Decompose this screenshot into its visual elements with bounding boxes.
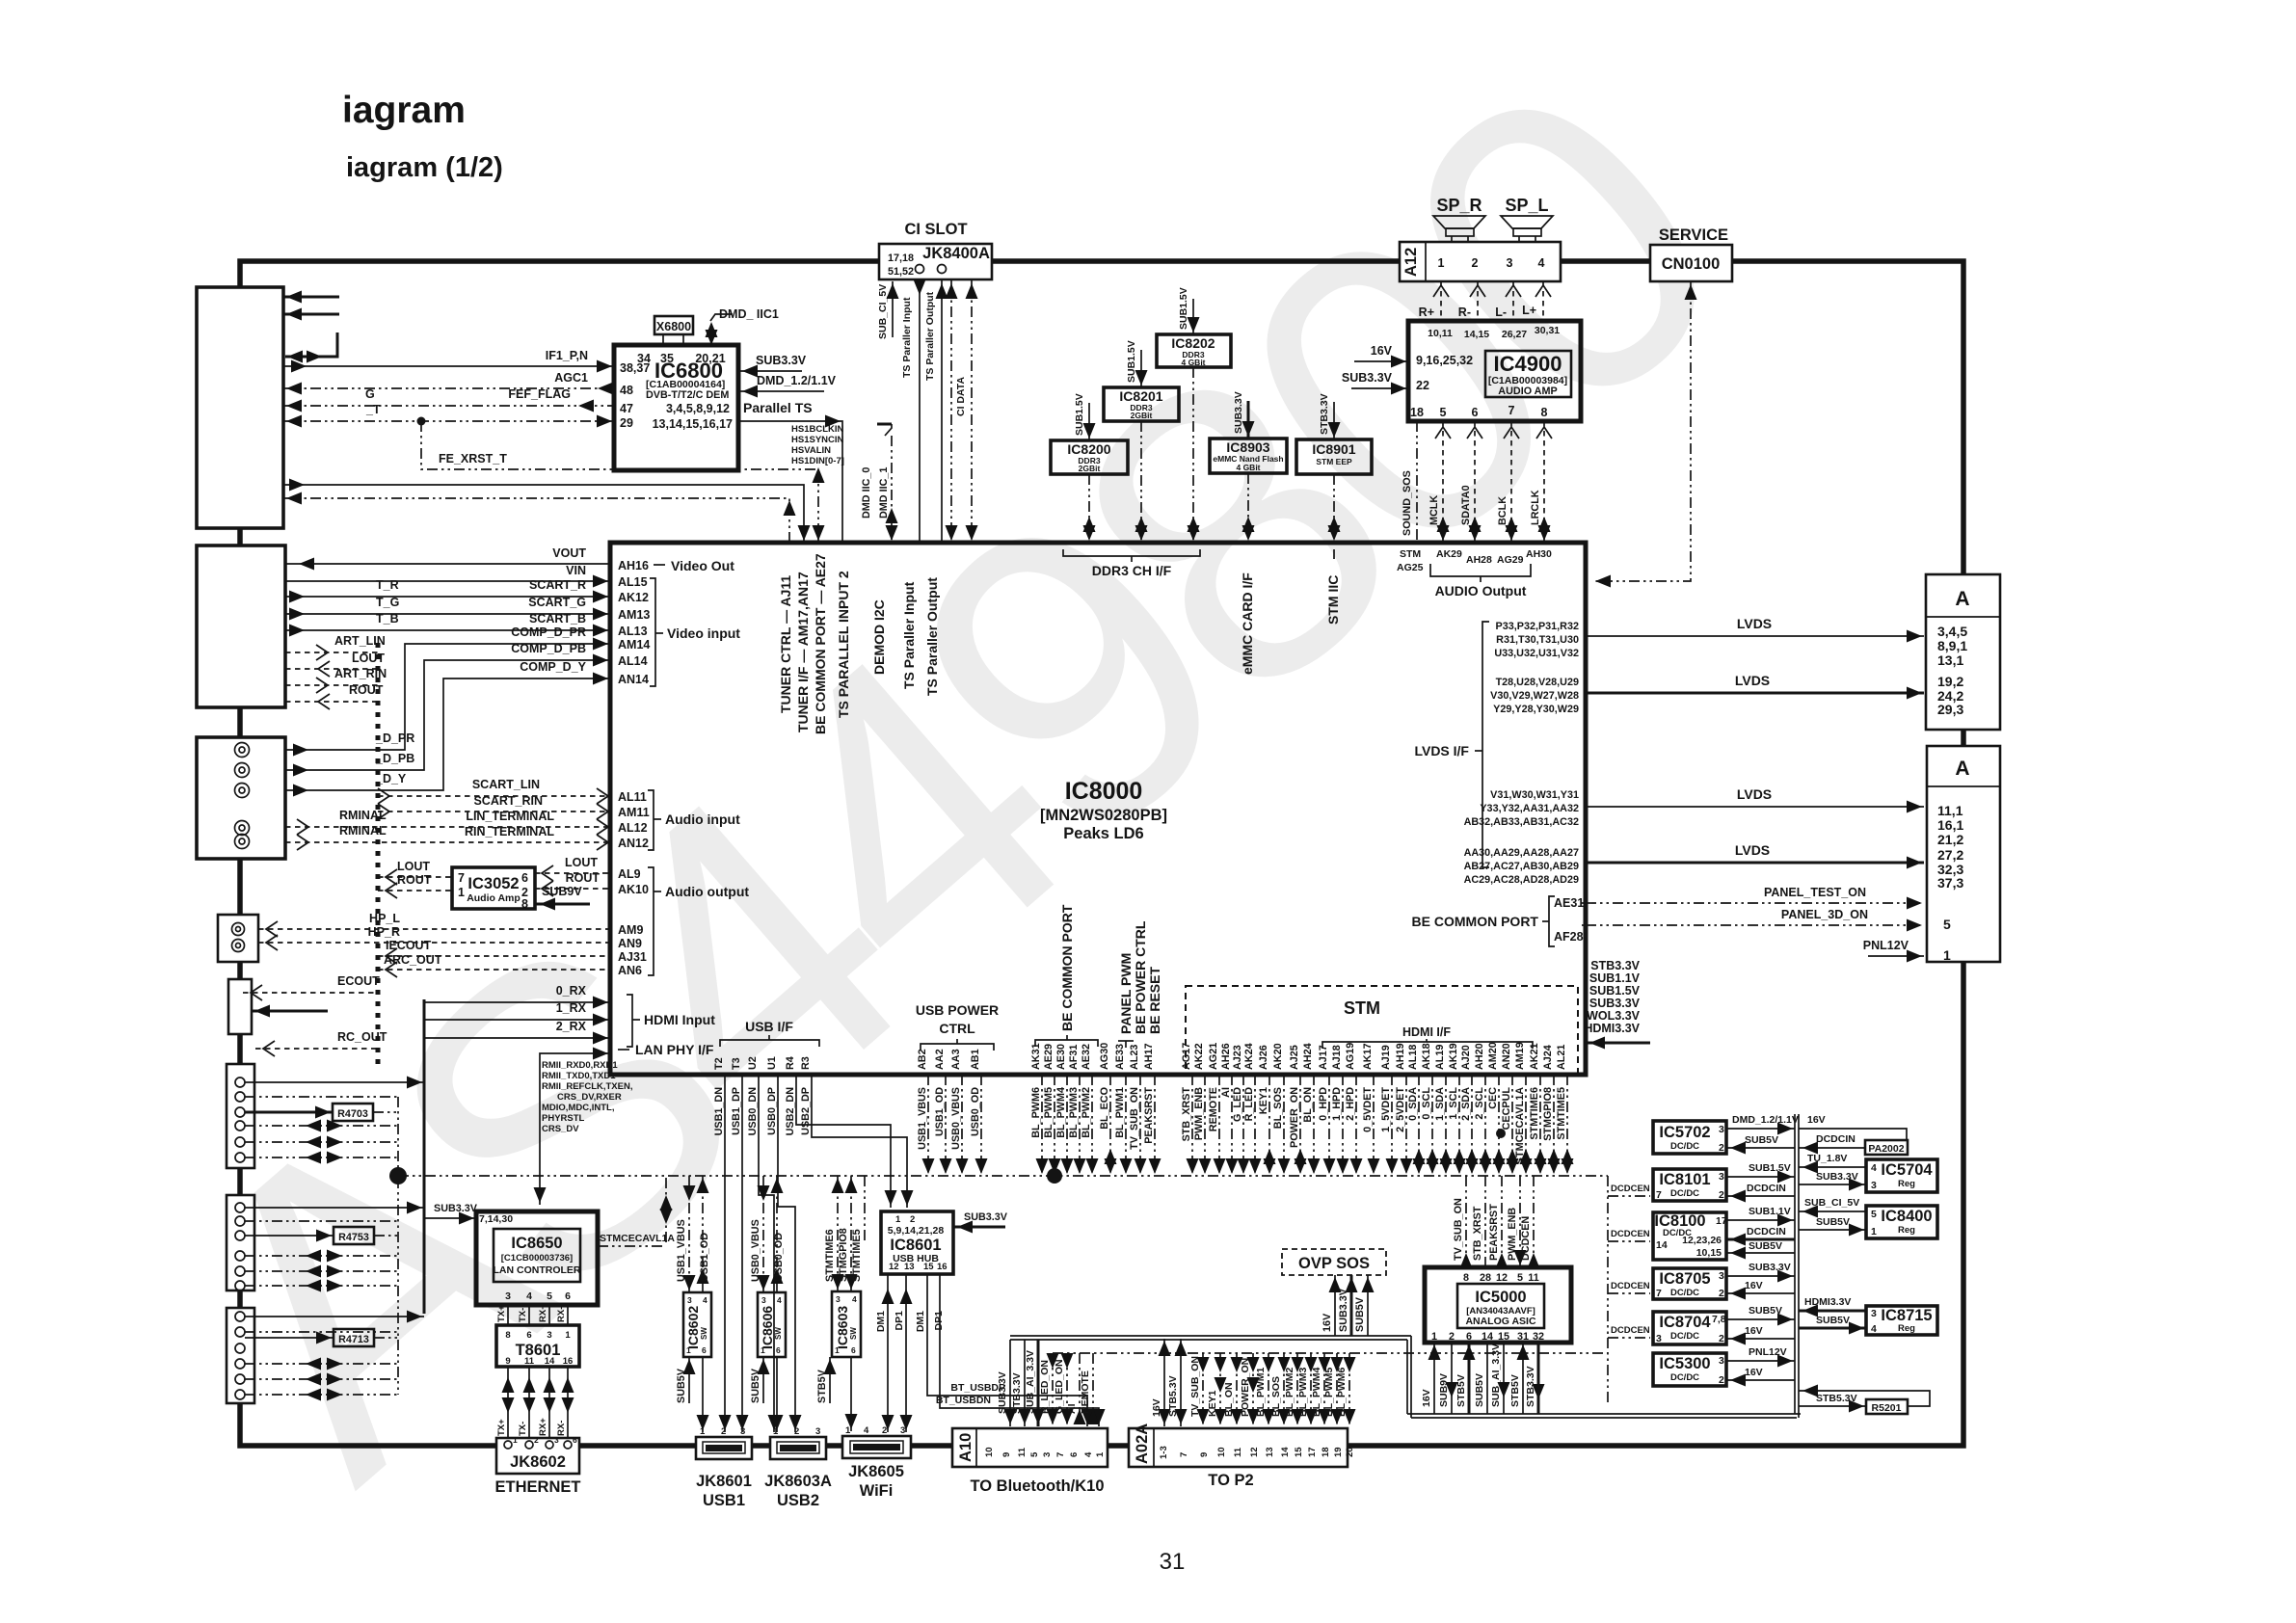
secondary dashdot bus	[1053, 1352, 1608, 1354]
svg-text:REMOTE: REMOTE	[1080, 1370, 1091, 1414]
svg-text:SP_L: SP_L	[1505, 196, 1548, 215]
svg-text:TS Paraller Output: TS Paraller Output	[924, 577, 940, 696]
svg-text:48: 48	[620, 384, 633, 397]
DCDCEN row 1	[1608, 1195, 1650, 1197]
svg-text:WiFi: WiFi	[860, 1482, 894, 1500]
svg-text:AB2: AB2	[917, 1049, 928, 1070]
svg-text:STB3.3V: STB3.3V	[1319, 393, 1330, 435]
regulator IC5704	[1866, 1159, 1937, 1192]
svg-text:AK18: AK18	[1421, 1043, 1432, 1070]
svg-text:11,1: 11,1	[1937, 803, 1963, 818]
component AV jack box	[197, 737, 285, 859]
wire USB1_OD from IC8602	[702, 1176, 704, 1292]
wire USB2_DP to IC8601	[812, 1075, 907, 1208]
wire VIN	[285, 580, 610, 582]
svg-text:TO Bluetooth/K10: TO Bluetooth/K10	[970, 1477, 1104, 1495]
wire RIN_TERMINAL	[285, 841, 610, 843]
svg-text:12: 12	[1496, 1272, 1508, 1284]
regulator IC8715	[1866, 1306, 1937, 1335]
svg-text:AUDIO AMP: AUDIO AMP	[1498, 386, 1557, 397]
svg-text:1: 1	[513, 1435, 518, 1445]
wire IECOUT	[378, 955, 610, 957]
svg-text:STMGPIO8: STMGPIO8	[1542, 1087, 1554, 1141]
svg-text:ETHERNET: ETHERNET	[495, 1478, 581, 1496]
svg-text:15: 15	[923, 1262, 934, 1272]
svg-text:HDMI I/F: HDMI I/F	[1402, 1025, 1451, 1039]
svg-text:1: 1	[458, 886, 465, 899]
svg-text:AH24: AH24	[1302, 1043, 1314, 1070]
svg-text:AG30: AG30	[1099, 1043, 1110, 1070]
svg-text:JK8400A: JK8400A	[922, 245, 990, 262]
wire 2_RX	[424, 1037, 610, 1039]
wire DCDCIN in	[1726, 1195, 1795, 1197]
svg-text:2: 2	[1719, 1333, 1724, 1344]
svg-text:BL_PWM4: BL_PWM4	[1055, 1087, 1067, 1138]
svg-text:AL9: AL9	[618, 867, 641, 881]
svg-text:3: 3	[1871, 1180, 1877, 1191]
svg-text:AH19: AH19	[1395, 1043, 1406, 1070]
USB POWER CTRL bracket + label	[921, 1044, 994, 1051]
svg-text:AI: AI	[1220, 1087, 1232, 1098]
svg-text:BE RESET: BE RESET	[1147, 967, 1162, 1034]
svg-text:16: 16	[563, 1356, 574, 1367]
svg-text:AK19: AK19	[1448, 1043, 1459, 1070]
svg-text:HDMI3.3V: HDMI3.3V	[1804, 1296, 1851, 1308]
svg-text:AC29,AC28,AD28,AD29: AC29,AC28,AD28,AD29	[1464, 874, 1579, 886]
audio input bracket	[648, 790, 654, 850]
svg-text:IC8903: IC8903	[1226, 439, 1269, 455]
svg-text:13,14,15,16,17: 13,14,15,16,17	[653, 417, 733, 431]
wire 16V right	[1799, 1129, 1907, 1140]
wire TUNER CTRL	[283, 498, 789, 543]
wire HP_L	[258, 928, 610, 930]
svg-text:ANALOG ASIC: ANALOG ASIC	[1465, 1316, 1536, 1327]
svg-text:TO P2: TO P2	[1208, 1472, 1253, 1489]
wire LOUT right of IC3052	[535, 872, 610, 874]
wire HDMI1 from box E	[245, 1207, 424, 1209]
svg-text:STB3.3V: STB3.3V	[1525, 1366, 1536, 1407]
svg-text:4: 4	[526, 1290, 532, 1302]
svg-text:8: 8	[521, 897, 528, 911]
wire COMP_D_PB	[285, 660, 610, 770]
wire STB5V into IC8603	[829, 1357, 831, 1403]
audio amp IC3052	[452, 867, 535, 909]
svg-text:4: 4	[852, 1294, 857, 1304]
svg-text:SUB1.5V: SUB1.5V	[1126, 340, 1137, 383]
wire COMP_D_PR	[285, 644, 610, 750]
svg-text:SUB3.3V: SUB3.3V	[434, 1203, 478, 1214]
svg-text:16V: 16V	[1807, 1114, 1826, 1126]
svg-text:VIN: VIN	[566, 564, 586, 577]
usb switch IC8602	[683, 1292, 711, 1357]
wire STMCECAVL1A	[598, 1245, 666, 1247]
svg-text:AH26: AH26	[1220, 1043, 1232, 1070]
svg-text:11: 11	[1528, 1272, 1538, 1284]
svg-text:AJ18: AJ18	[1331, 1045, 1343, 1070]
svg-text:3: 3	[1042, 1452, 1053, 1457]
svg-text:DC/DC: DC/DC	[1670, 1188, 1699, 1199]
svg-text:BL_PWM2: BL_PWM2	[1081, 1087, 1092, 1138]
svg-text:AJ19: AJ19	[1380, 1045, 1392, 1070]
svg-text:RIN_TERMINAL: RIN_TERMINAL	[465, 825, 554, 838]
wire USB1_VBUS to IC8602	[688, 1176, 690, 1292]
wire IC8602 to JK8601	[702, 1357, 704, 1432]
connector A (LVDS lower)	[1927, 746, 2000, 962]
svg-text:AK29: AK29	[1436, 548, 1462, 560]
crystal X6800	[654, 316, 693, 334]
svg-text:T2: T2	[713, 1057, 725, 1070]
wire 16V into IC4900	[1354, 360, 1408, 362]
svg-text:SCART_RIN: SCART_RIN	[473, 794, 543, 808]
svg-text:STB_XRST: STB_XRST	[1181, 1087, 1192, 1142]
svg-text:TUNER CTRL — AJ11: TUNER CTRL — AJ11	[778, 575, 793, 713]
svg-text:IC5000: IC5000	[1475, 1289, 1526, 1306]
usb switch IC8606	[758, 1292, 786, 1357]
svg-text:STB3.3V: STB3.3V	[1590, 959, 1640, 972]
wire IC8606 to JK8603A	[776, 1357, 778, 1432]
svg-text:38,37: 38,37	[620, 361, 650, 375]
svg-text:R4753: R4753	[338, 1232, 369, 1243]
svg-text:SUB_AI_3.3V: SUB_AI_3.3V	[1025, 1350, 1036, 1414]
svg-text:15: 15	[1294, 1447, 1304, 1457]
wires T8601 to JK8602	[507, 1367, 509, 1440]
svg-text:10,15: 10,15	[1696, 1247, 1722, 1259]
svg-text:8: 8	[1541, 406, 1548, 419]
svg-text:Y29,Y28,Y30,W29: Y29,Y28,Y30,W29	[1493, 704, 1579, 715]
svg-text:USB1_OD: USB1_OD	[699, 1233, 710, 1282]
svg-text:BL_PWM1: BL_PWM1	[1255, 1368, 1267, 1417]
svg-text:R31,T30,T31,U30: R31,T30,T31,U30	[1496, 634, 1579, 646]
svg-text:4 GBit: 4 GBit	[1181, 358, 1205, 367]
svg-text:STM IIC: STM IIC	[1325, 575, 1341, 625]
svg-text:51,52: 51,52	[888, 266, 914, 278]
svg-text:TUNER I/F — AM17,AN17: TUNER I/F — AM17,AN17	[795, 572, 811, 732]
svg-text:BL_PWM2: BL_PWM2	[1284, 1368, 1295, 1417]
svg-text:AE30: AE30	[1055, 1044, 1067, 1070]
svg-text:1: 1	[895, 1214, 901, 1225]
wires A02A control nets	[1202, 1353, 1204, 1426]
wire STMTIME5	[864, 1176, 866, 1243]
svg-text:5,9,14,21,28: 5,9,14,21,28	[888, 1225, 945, 1237]
svg-text:AL18: AL18	[1407, 1045, 1419, 1070]
svg-text:PEAKSRST: PEAKSRST	[1488, 1204, 1500, 1261]
svg-text:IC8200: IC8200	[1067, 441, 1110, 457]
svg-text:CRS_DV,RXER: CRS_DV,RXER	[557, 1092, 622, 1103]
svg-text:LVDS: LVDS	[1735, 673, 1770, 688]
wire CI DATA 2	[971, 279, 973, 543]
wire HDMI2 from box F	[245, 1316, 424, 1317]
svg-text:AF31: AF31	[1068, 1045, 1080, 1070]
svg-text:SUB3.3V: SUB3.3V	[1749, 1262, 1791, 1273]
svg-text:HS1SYNCIN: HS1SYNCIN	[791, 435, 844, 445]
svg-text:3: 3	[740, 1426, 745, 1437]
svg-text:AL14: AL14	[618, 654, 648, 668]
wire IF1_P,N	[283, 365, 614, 367]
svg-text:SUB9V: SUB9V	[542, 885, 582, 898]
wire ctrl E4	[245, 1255, 398, 1257]
svg-text:1: 1	[773, 1426, 779, 1437]
svg-text:HS1DIN[0-7]: HS1DIN[0-7]	[791, 456, 844, 466]
svg-text:PNL12V: PNL12V	[1749, 1346, 1787, 1358]
svg-text:IC5704: IC5704	[1881, 1161, 1933, 1179]
svg-text:5: 5	[1871, 1209, 1877, 1220]
svg-text:FEF_FLAG: FEF_FLAG	[508, 387, 571, 401]
wire Parallel TS	[738, 421, 842, 543]
svg-text:KEY1: KEY1	[1207, 1390, 1218, 1417]
wire FEF_FLAG (G)	[283, 405, 614, 407]
svg-text:AH28: AH28	[1466, 554, 1492, 566]
svg-text:7: 7	[1656, 1288, 1662, 1299]
svg-text:12: 12	[1249, 1447, 1260, 1457]
svg-text:DDR3 CH I/F: DDR3 CH I/F	[1092, 563, 1172, 578]
svg-text:11: 11	[1233, 1447, 1243, 1457]
svg-text:3: 3	[1656, 1333, 1662, 1344]
audio output bracket	[648, 867, 654, 975]
svg-text:PANEL PWM: PANEL PWM	[1118, 953, 1134, 1034]
IC5000 bottom supplies	[1433, 1343, 1435, 1414]
svg-text:RMII_TXD0,TXD1: RMII_TXD0,TXD1	[542, 1071, 616, 1081]
svg-text:LIN_TERMINAL: LIN_TERMINAL	[466, 810, 554, 823]
svg-text:IC8715: IC8715	[1881, 1307, 1932, 1324]
svg-text:SERVICE: SERVICE	[1659, 226, 1728, 244]
wire VOUT	[285, 563, 610, 565]
svg-text:DM1: DM1	[915, 1311, 926, 1332]
svg-text:A: A	[1955, 758, 1969, 780]
svg-text:3: 3	[687, 1295, 692, 1305]
wire ROUT	[285, 701, 378, 703]
usb connector JK8601	[696, 1437, 752, 1459]
svg-text:IC5300: IC5300	[1659, 1355, 1710, 1372]
svg-text:HP_L: HP_L	[369, 912, 400, 925]
svg-text:1: 1	[1438, 256, 1445, 270]
svg-text:6: 6	[702, 1345, 707, 1355]
wire ctrl D2	[245, 1096, 398, 1098]
svg-text:AN20: AN20	[1501, 1043, 1512, 1070]
svg-text:2: 2	[1719, 1374, 1724, 1386]
wire ROUT right of IC3052	[535, 888, 610, 890]
svg-text:SOUND_SOS: SOUND_SOS	[1402, 470, 1413, 536]
svg-text:BL_PWM3: BL_PWM3	[1297, 1368, 1309, 1417]
svg-text:T28,U28,V28,U29: T28,U28,V28,U29	[1496, 677, 1579, 688]
svg-text:RMINAL: RMINAL	[339, 809, 387, 822]
svg-text:HDMI3.3V: HDMI3.3V	[1584, 1022, 1640, 1035]
svg-text:AM14: AM14	[618, 638, 650, 652]
svg-text:Audio Amp: Audio Amp	[467, 892, 521, 904]
svg-text:STM: STM	[1400, 548, 1421, 560]
svg-text:IC8606: IC8606	[760, 1306, 775, 1349]
svg-text:PNL12V: PNL12V	[1863, 939, 1909, 952]
svg-text:STB3.3V: STB3.3V	[1011, 1372, 1023, 1414]
flash IC8903	[1210, 439, 1287, 473]
svg-text:7: 7	[1055, 1452, 1066, 1457]
svg-text:_D_PR: _D_PR	[375, 732, 414, 745]
svg-text:COMP_D_PB: COMP_D_PB	[511, 642, 586, 655]
DCDCEN row 2	[1608, 1240, 1650, 1242]
svg-text:HDMI Input: HDMI Input	[644, 1012, 715, 1027]
svg-text:3,4,5: 3,4,5	[1937, 624, 1967, 639]
wire IC8603 to JK8605	[850, 1357, 852, 1431]
svg-text:USB1: USB1	[703, 1492, 745, 1509]
svg-text:1: 1	[700, 1426, 706, 1437]
svg-text:USB1_VBUS: USB1_VBUS	[917, 1087, 928, 1150]
wire SUB9V into IC3052	[535, 903, 590, 906]
svg-text:AK21: AK21	[1529, 1043, 1540, 1070]
svg-text:POWER_ON: POWER_ON	[1289, 1087, 1300, 1148]
svg-text:BL_ECO: BL_ECO	[1099, 1087, 1110, 1130]
svg-text:29,3: 29,3	[1937, 702, 1963, 717]
svg-text:1: 1	[845, 1425, 851, 1436]
wire to R4753	[245, 1235, 334, 1237]
svg-text:T_B: T_B	[376, 612, 399, 625]
wire PANEL_TEST_ON	[1586, 902, 1924, 904]
svg-text:P33,P32,P31,R32: P33,P32,P31,R32	[1496, 621, 1579, 632]
svg-text:TS PARALLEL INPUT 2: TS PARALLEL INPUT 2	[836, 571, 851, 718]
left control bus vertical	[397, 1097, 399, 1395]
svg-text:6: 6	[1472, 406, 1479, 419]
svg-text:16V: 16V	[1745, 1325, 1763, 1337]
DCDCEN row 4	[1608, 1337, 1650, 1339]
svg-text:IC8602: IC8602	[685, 1306, 701, 1349]
wire STB_XRST to IC5000	[1484, 1176, 1486, 1267]
svg-text:R_LED_ON: R_LED_ON	[1039, 1360, 1051, 1414]
svg-text:SUB5V: SUB5V	[1354, 1296, 1366, 1332]
svg-text:19,2: 19,2	[1937, 674, 1963, 689]
wire PNL12V	[1868, 955, 1924, 957]
svg-text:AK22: AK22	[1193, 1043, 1205, 1070]
svg-text:STMCECAVL1A: STMCECAVL1A	[1514, 1087, 1526, 1164]
svg-text:DC/DC: DC/DC	[1670, 1372, 1699, 1383]
wire DMD_1.2/1.1V	[738, 390, 824, 392]
svg-text:AK20: AK20	[1272, 1043, 1284, 1070]
svg-text:AE31: AE31	[1554, 896, 1584, 910]
AV jack J4	[235, 821, 250, 836]
svg-text:IC8201: IC8201	[1119, 388, 1162, 404]
svg-text:7: 7	[1179, 1452, 1189, 1457]
svg-text:T_G: T_G	[376, 596, 399, 609]
svg-text:SUB5V: SUB5V	[750, 1368, 761, 1403]
svg-text:DC/DC: DC/DC	[1670, 1288, 1699, 1298]
svg-text:12,23,26: 12,23,26	[1682, 1235, 1722, 1246]
svg-text:USB1_VBUS: USB1_VBUS	[676, 1219, 687, 1282]
svg-text:27,2: 27,2	[1937, 847, 1963, 863]
connector A02A	[1129, 1428, 1348, 1467]
svg-text:IC4900: IC4900	[1494, 352, 1562, 376]
svg-text:31: 31	[1160, 1549, 1186, 1575]
svg-text:AH30: AH30	[1526, 548, 1552, 560]
wire ARC_OUT	[378, 969, 610, 971]
wire SDATA0	[1474, 421, 1476, 543]
svg-text:STB5V: STB5V	[1455, 1374, 1467, 1407]
svg-text:SUB5V: SUB5V	[1745, 1134, 1778, 1146]
wire SUB_CI_5V	[1799, 1211, 1866, 1212]
svg-text:RX+: RX+	[538, 1304, 548, 1322]
wire eMMC card i/f	[1247, 473, 1249, 543]
svg-text:AL23: AL23	[1129, 1045, 1140, 1070]
SoC IC8000 main block	[610, 543, 1586, 1075]
wire DCDCEN to IC5000	[1533, 1176, 1535, 1267]
svg-text:4 GBit: 4 GBit	[1236, 463, 1260, 472]
svg-text:AM20: AM20	[1487, 1042, 1499, 1070]
wire LVDS 3	[1586, 806, 1924, 808]
svg-text:AJ25: AJ25	[1289, 1045, 1300, 1070]
svg-text:Peaks LD6: Peaks LD6	[1063, 825, 1143, 842]
svg-text:AJ26: AJ26	[1258, 1045, 1269, 1070]
svg-text:16V: 16V	[1745, 1280, 1763, 1291]
eeprom IC8901	[1296, 439, 1372, 474]
svg-text:STB_XRST: STB_XRST	[1472, 1206, 1483, 1261]
wire SUB5V to OVP	[1367, 1275, 1369, 1336]
svg-text:STMCECAVL1A: STMCECAVL1A	[600, 1233, 675, 1244]
svg-text:BL_ON: BL_ON	[1302, 1087, 1314, 1123]
svg-text:9,16,25,32: 9,16,25,32	[1416, 354, 1473, 367]
svg-text:Y33,Y32,AA31,AA32: Y33,Y32,AA31,AA32	[1480, 803, 1579, 814]
svg-text:SUB3.3V: SUB3.3V	[1589, 997, 1641, 1010]
svg-text:AL12: AL12	[618, 821, 648, 835]
svg-text:10,11: 10,11	[1428, 328, 1453, 339]
wire ctrl F2	[245, 1331, 398, 1333]
svg-text:14: 14	[545, 1356, 555, 1367]
svg-text:T3: T3	[731, 1057, 742, 1070]
svg-text:BL_PWM5: BL_PWM5	[1323, 1368, 1335, 1417]
svg-text:47: 47	[620, 402, 633, 415]
svg-text:IC8000: IC8000	[1065, 778, 1143, 805]
wire USB1_DN to JK8601	[724, 1075, 726, 1432]
svg-text:2: 2	[721, 1426, 726, 1437]
svg-text:IC3052: IC3052	[467, 875, 519, 892]
svg-text:Parallel TS: Parallel TS	[743, 400, 813, 415]
wire SUB3.3V out	[1726, 1275, 1795, 1277]
svg-text:TS Paraller Input: TS Paraller Input	[901, 297, 913, 378]
svg-text:AJ31: AJ31	[618, 950, 647, 964]
svg-text:4: 4	[1083, 1451, 1094, 1457]
svg-text:_T: _T	[365, 403, 381, 416]
svg-text:SUB_CI_5V: SUB_CI_5V	[877, 284, 889, 339]
wire USB0_OD from IC8606	[776, 1176, 778, 1292]
svg-text:CRS_DV: CRS_DV	[542, 1124, 579, 1134]
svg-text:SCART_R: SCART_R	[529, 578, 586, 592]
wire TU_1.8V	[1799, 1166, 1866, 1168]
svg-text:TX-: TX-	[518, 1422, 528, 1436]
svg-text:17: 17	[1716, 1215, 1727, 1227]
svg-text:SCART_G: SCART_G	[528, 596, 586, 609]
wire 16V in	[1726, 1338, 1795, 1340]
svg-text:STB5V: STB5V	[1509, 1374, 1521, 1407]
wire SCART_B	[285, 629, 610, 631]
svg-text:3: 3	[815, 1426, 820, 1437]
svg-text:9: 9	[1199, 1452, 1210, 1457]
wifi connector JK8605	[842, 1436, 911, 1458]
svg-text:AK31: AK31	[1030, 1043, 1042, 1070]
usb hub IC8601	[881, 1211, 953, 1274]
DDR3 CH I/F bracket	[1063, 549, 1200, 556]
svg-text:TX+: TX+	[496, 1419, 507, 1436]
wire SUB5V in	[1726, 1252, 1795, 1254]
wire PEAKSRST to IC5000	[1501, 1176, 1503, 1267]
svg-text:18: 18	[1321, 1447, 1331, 1457]
svg-text:35: 35	[660, 352, 674, 365]
svg-text:SUB1.1V: SUB1.1V	[1749, 1206, 1791, 1217]
wire TS Paraller Input (CI)	[919, 279, 921, 543]
svg-text:DCDCIN: DCDCIN	[1747, 1226, 1786, 1237]
svg-text:SUB3.3V: SUB3.3V	[964, 1211, 1008, 1223]
svg-text:21,2: 21,2	[1937, 832, 1963, 847]
svg-text:DC/DC: DC/DC	[1670, 1141, 1699, 1152]
wire _T to pin 29	[283, 420, 614, 422]
svg-text:1_5VDET: 1_5VDET	[1380, 1087, 1392, 1132]
svg-text:14: 14	[1280, 1447, 1291, 1457]
svg-text:USB0_DP: USB0_DP	[766, 1087, 778, 1135]
wire HDMI0 from box D	[245, 1081, 424, 1083]
